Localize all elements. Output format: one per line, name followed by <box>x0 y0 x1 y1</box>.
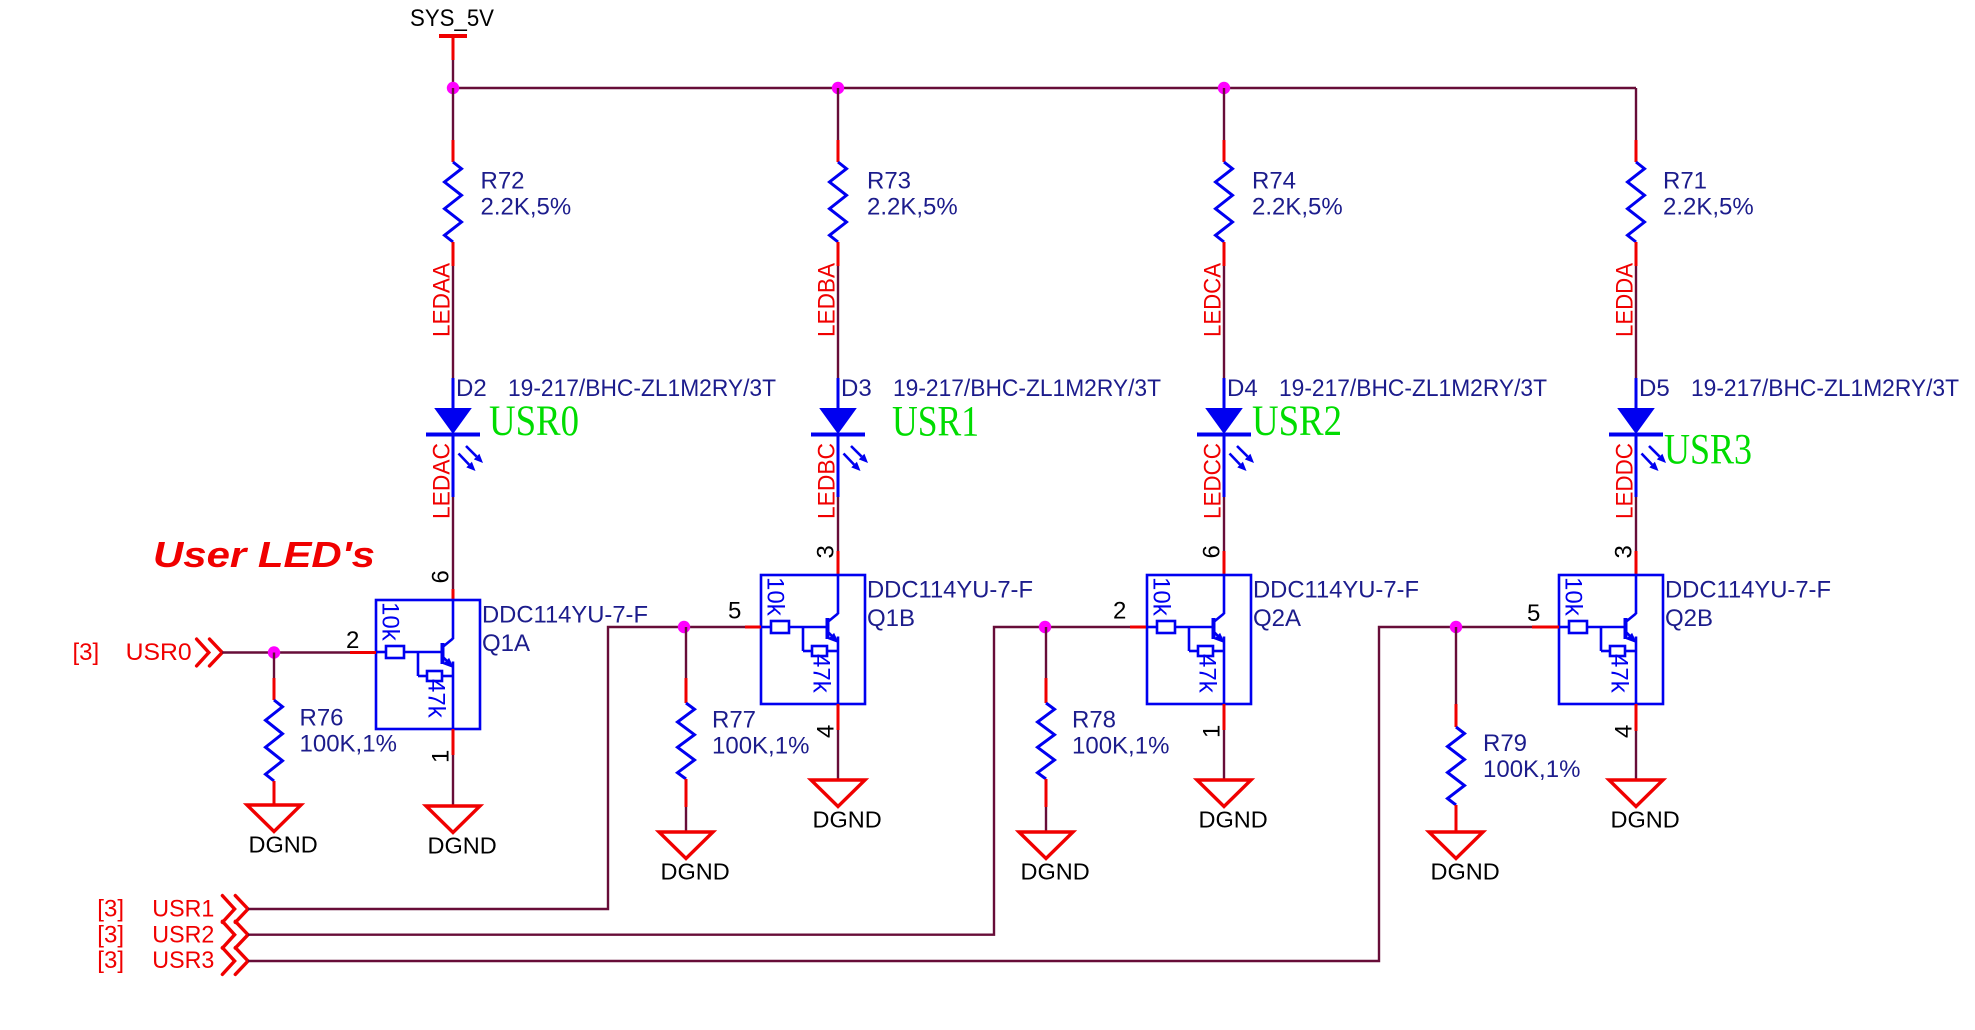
svg-text:100K,1%: 100K,1% <box>300 731 397 758</box>
transistor Q2B (DDC114YU-7-F) <box>1559 575 1663 704</box>
svg-text:USR2: USR2 <box>152 922 214 949</box>
svg-text:DDC114YU-7-F: DDC114YU-7-F <box>867 577 1033 604</box>
svg-text:[3]: [3] <box>73 639 100 666</box>
resistor R74 2.2K,5% <box>1216 162 1233 242</box>
svg-text:R76: R76 <box>300 705 344 732</box>
svg-text:2: 2 <box>346 627 359 654</box>
svg-text:DDC114YU-7-F: DDC114YU-7-F <box>482 602 648 629</box>
svg-text:3: 3 <box>1611 545 1638 558</box>
svg-text:USR1: USR1 <box>892 399 979 446</box>
svg-text:6: 6 <box>1199 545 1226 558</box>
svg-text:100K,1%: 100K,1% <box>1072 733 1169 760</box>
svg-text:User LED's: User LED's <box>153 534 375 575</box>
svg-text:USR0: USR0 <box>489 398 579 445</box>
svg-text:[3]: [3] <box>97 896 124 923</box>
wire USR0 to Q1A base <box>222 651 350 653</box>
svg-text:3: 3 <box>813 545 840 558</box>
pin stub Q1A pin 6 <box>452 589 455 600</box>
wire LEDDA <box>1635 266 1637 379</box>
ground DGND (R78) <box>1019 832 1073 859</box>
pin stub Q1A pin 2 <box>350 651 376 654</box>
svg-text:47k: 47k <box>1606 654 1633 694</box>
svg-text:LEDAA: LEDAA <box>429 263 456 337</box>
resistor R76 100K,1% <box>266 700 283 781</box>
wire R78 to ground <box>1045 807 1047 832</box>
svg-text:1: 1 <box>428 750 455 763</box>
LED D2 <box>452 378 455 408</box>
svg-text:2.2K,5%: 2.2K,5% <box>481 194 572 221</box>
svg-text:R74: R74 <box>1252 168 1296 195</box>
svg-text:LEDAC: LEDAC <box>429 443 456 519</box>
pin stub Q2B pin 4 <box>1635 704 1638 731</box>
wire USR3 to Q2B base <box>248 627 1532 961</box>
ground DGND (R76) <box>247 805 301 832</box>
svg-text:10k: 10k <box>377 602 404 642</box>
svg-text:2.2K,5%: 2.2K,5% <box>1663 194 1754 221</box>
pin stub Q1B pin 4 <box>837 704 840 730</box>
pin stub Q1B pin 5 <box>745 626 761 629</box>
svg-text:USR1: USR1 <box>152 896 214 923</box>
svg-text:R72: R72 <box>481 168 525 195</box>
pin stub R76 top <box>273 678 276 700</box>
svg-text:LEDCC: LEDCC <box>1200 443 1227 519</box>
connector chevron USR1 <box>222 896 248 923</box>
svg-text:Q1A: Q1A <box>482 630 530 657</box>
ground DGND (Q2A) <box>1197 780 1251 807</box>
svg-text:2.2K,5%: 2.2K,5% <box>1252 194 1343 221</box>
wire Q2A emitter to ground <box>1223 730 1225 780</box>
svg-text:D5: D5 <box>1639 375 1670 402</box>
svg-text:19-217/BHC-ZL1M2RY/3T: 19-217/BHC-ZL1M2RY/3T <box>1691 375 1959 402</box>
ground DGND (Q2B) <box>1609 780 1663 807</box>
pin stub R78 bottom <box>1045 779 1048 807</box>
resistor R78 100K,1% <box>1038 703 1055 779</box>
wire bus to R73 <box>837 88 839 140</box>
ground DGND (R77) <box>659 832 713 859</box>
svg-text:Q2A: Q2A <box>1253 605 1301 632</box>
connector chevron USR0 <box>197 639 223 666</box>
svg-text:100K,1%: 100K,1% <box>1483 756 1580 783</box>
wire USR1 to Q1B base <box>248 627 745 909</box>
svg-text:47k: 47k <box>808 654 835 694</box>
svg-text:R73: R73 <box>867 168 911 195</box>
svg-text:D3: D3 <box>841 375 872 402</box>
svg-text:DGND: DGND <box>249 832 318 858</box>
pin stub R71 bottom <box>1635 242 1638 266</box>
svg-text:R78: R78 <box>1072 707 1116 734</box>
LED D4 <box>1223 378 1226 408</box>
svg-text:10k: 10k <box>762 577 789 617</box>
pin stub R72 bottom <box>452 242 455 266</box>
pin stub Q1A pin 1 <box>452 729 455 755</box>
connector chevron USR2 <box>222 921 248 948</box>
svg-text:Q2B: Q2B <box>1665 605 1713 632</box>
svg-text:USR3: USR3 <box>1664 427 1752 474</box>
resistor R73 2.2K,5% <box>830 162 847 242</box>
svg-text:2: 2 <box>1113 598 1126 625</box>
svg-text:LEDDA: LEDDA <box>1612 263 1639 337</box>
pin stub Q2A pin 1 <box>1223 704 1226 730</box>
pin stub Q1B pin 3 <box>837 551 840 575</box>
svg-text:[3]: [3] <box>97 947 124 974</box>
transistor Q1A (DDC114YU-7-F) <box>376 600 480 729</box>
LED D3 <box>837 378 840 408</box>
wire to R76 <box>273 653 275 679</box>
svg-text:6: 6 <box>428 570 455 583</box>
power symbol SYS_5V bar <box>439 34 467 38</box>
resistor R71 2.2K,5% <box>1628 162 1645 242</box>
junction USR2 / R78 <box>1039 621 1051 633</box>
svg-text:DGND: DGND <box>1611 807 1680 833</box>
wire LEDAC to Q1A <box>452 497 454 589</box>
svg-text:R71: R71 <box>1663 168 1707 195</box>
svg-text:10k: 10k <box>1560 577 1587 617</box>
svg-text:DGND: DGND <box>1431 859 1500 885</box>
wire bus to R74 <box>1223 88 1225 140</box>
wire LEDBA <box>837 266 839 379</box>
wire bus to R72 <box>452 88 454 140</box>
pin stub R74 top <box>1223 140 1226 162</box>
junction USR1 / R77 <box>678 621 690 633</box>
svg-text:USR2: USR2 <box>1252 398 1342 445</box>
pin stub R73 bottom <box>837 242 840 266</box>
junction bus / R72 <box>447 82 459 94</box>
svg-text:DGND: DGND <box>1199 807 1268 833</box>
svg-text:LEDDC: LEDDC <box>1612 443 1639 519</box>
svg-text:47k: 47k <box>1194 654 1221 694</box>
junction USR0 / R76 <box>268 646 280 658</box>
svg-text:R79: R79 <box>1483 730 1527 757</box>
junction bus / R73 <box>832 82 844 94</box>
wire Q1B emitter to ground <box>837 730 839 780</box>
svg-text:LEDBA: LEDBA <box>814 263 841 337</box>
svg-text:LEDBC: LEDBC <box>814 443 841 519</box>
resistor R72 2.2K,5% <box>445 162 462 242</box>
svg-text:4: 4 <box>813 725 840 738</box>
pin stub R77 bottom <box>685 779 688 807</box>
wire LEDDC to Q2B <box>1635 497 1637 551</box>
svg-text:47k: 47k <box>423 679 450 719</box>
transistor Q1B (DDC114YU-7-F) <box>761 575 865 704</box>
wire USR2 to Q2A base <box>248 627 1130 935</box>
wire SYS_5V to bus <box>452 60 454 88</box>
wire LEDBC to Q1B <box>837 497 839 551</box>
wire to R79 <box>1455 627 1457 704</box>
pin stub R79 bottom <box>1455 805 1458 832</box>
svg-text:Q1B: Q1B <box>867 605 915 632</box>
svg-text:10k: 10k <box>1148 577 1175 617</box>
svg-text:USR0: USR0 <box>126 639 192 666</box>
LED D5 <box>1635 378 1638 408</box>
svg-text:DGND: DGND <box>1021 859 1090 885</box>
pin stub R77 top <box>685 678 688 703</box>
pin stub R76 bottom <box>273 781 276 805</box>
pin stub R79 top <box>1455 704 1458 727</box>
wire Q2B emitter to ground <box>1635 731 1637 780</box>
svg-text:1: 1 <box>1199 725 1226 738</box>
svg-text:5: 5 <box>1527 600 1540 627</box>
pin stub Q2A pin 6 <box>1223 551 1226 575</box>
transistor Q2A (DDC114YU-7-F) <box>1147 575 1251 704</box>
wire R77 to ground <box>685 807 687 832</box>
resistor R77 100K,1% <box>678 703 695 779</box>
svg-text:2.2K,5%: 2.2K,5% <box>867 194 958 221</box>
svg-text:DGND: DGND <box>428 833 497 859</box>
svg-text:DGND: DGND <box>813 807 882 833</box>
ground DGND (Q1A) <box>426 806 480 833</box>
wire bus corner down to R71 <box>1635 88 1637 140</box>
svg-text:5: 5 <box>728 598 741 625</box>
ground DGND (Q1B) <box>811 780 865 807</box>
svg-text:SYS_5V: SYS_5V <box>410 5 494 32</box>
svg-text:D2: D2 <box>456 375 487 402</box>
svg-text:DGND: DGND <box>661 859 730 885</box>
svg-text:[3]: [3] <box>97 922 124 949</box>
resistor R79 100K,1% <box>1448 727 1465 805</box>
pin stub Q2A pin 2 <box>1130 626 1146 629</box>
pin stub R78 top <box>1045 678 1048 703</box>
wire LEDCA <box>1223 266 1225 379</box>
wire Q1A emitter to ground <box>452 755 454 806</box>
wire LEDAA <box>452 266 454 379</box>
svg-text:R77: R77 <box>712 707 756 734</box>
ground DGND (R79) <box>1429 832 1483 859</box>
svg-text:LEDCA: LEDCA <box>1200 263 1227 337</box>
pin stub Q2B pin 3 <box>1635 551 1638 575</box>
wire to R77 <box>685 627 687 678</box>
svg-text:100K,1%: 100K,1% <box>712 733 809 760</box>
connector chevron USR3 <box>222 948 248 975</box>
pin stub R73 top <box>837 140 840 162</box>
wire top SYS_5V bus <box>453 87 1636 89</box>
svg-text:USR3: USR3 <box>152 947 214 974</box>
pin stub R72 top <box>452 140 455 162</box>
junction USR3 / R79 <box>1450 621 1462 633</box>
junction bus / R74 <box>1218 82 1230 94</box>
pin stub R71 top <box>1635 140 1638 162</box>
wire to R78 <box>1045 627 1047 678</box>
pin stub Q2B pin 5 <box>1532 626 1559 629</box>
pin stub R74 bottom <box>1223 242 1226 266</box>
wire LEDCC to Q2A <box>1223 497 1225 551</box>
svg-text:DDC114YU-7-F: DDC114YU-7-F <box>1665 577 1831 604</box>
svg-text:DDC114YU-7-F: DDC114YU-7-F <box>1253 577 1419 604</box>
svg-text:4: 4 <box>1611 725 1638 738</box>
